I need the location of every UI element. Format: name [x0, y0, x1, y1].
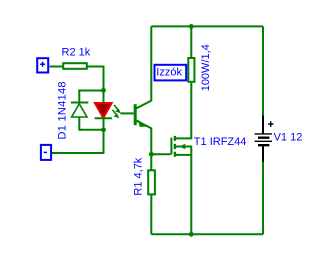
- light arrow 2: [113, 110, 120, 118]
- node A junction dot: [101, 88, 106, 93]
- node B junction dot: [149, 152, 154, 157]
- wire node A down to LED: [103, 90, 105, 103]
- transistor T1 body lead with arrow: [176, 147, 191, 235]
- phototransistor emitter: [136, 120, 152, 154]
- resistor R1: [148, 170, 155, 194]
- wire lamp to T1 drain: [176, 83, 191, 139]
- diode D1: [71, 103, 88, 118]
- terminal + (plus box): [37, 58, 48, 72]
- top rail: [151, 25, 263, 27]
- battery top wire green: [262, 26, 264, 115]
- wire node A to D1 top: [79, 91, 103, 102]
- svg-text:D1 1N4148: D1 1N4148: [56, 81, 68, 139]
- transistor T1 channel segments: [174, 136, 176, 157]
- svg-text:100W/1,4: 100W/1,4: [200, 44, 212, 91]
- svg-text:Izzók: Izzók: [156, 67, 182, 79]
- light arrow 1: [114, 105, 121, 113]
- resistor R1 bottom wire: [150, 194, 152, 234]
- LED of optocoupler (red): [95, 103, 112, 118]
- resistor R1 top wire: [150, 154, 152, 170]
- wire D1 bottom to node C: [79, 117, 103, 130]
- bottom rail: [151, 233, 263, 235]
- phototransistor base bar: [134, 104, 137, 125]
- gate wire node B to T1: [151, 153, 170, 155]
- transistor T1 gate bar: [170, 138, 172, 155]
- phototransistor base lead: [121, 112, 134, 114]
- wire R2 to node A: [87, 67, 104, 91]
- svg-text:V1 12: V1 12: [274, 131, 303, 143]
- phototransistor collector: [136, 26, 152, 108]
- resistor R2: [63, 63, 87, 69]
- top node junction dot: [189, 24, 194, 29]
- terminal - (minus box): [41, 145, 51, 160]
- lamp Izzok body: [188, 58, 194, 82]
- LED cathode bar: [95, 117, 112, 119]
- wire plus box to R2: [50, 66, 64, 68]
- wire LED to node C: [103, 118, 105, 130]
- svg-text:R1 4,7k: R1 4,7k: [132, 157, 144, 195]
- wire node C to minus terminal: [52, 130, 104, 153]
- battery bottom wire green: [262, 162, 264, 234]
- bottom node junction dot: [189, 232, 194, 237]
- svg-text:R2 1k: R2 1k: [62, 47, 91, 59]
- battery V1: [255, 115, 274, 162]
- label box Izzok: [155, 65, 187, 81]
- svg-text:T1 IRFZ44: T1 IRFZ44: [194, 136, 247, 148]
- node C junction dot: [101, 127, 106, 132]
- emitter arrowhead: [138, 120, 146, 127]
- wire top node to lamp: [190, 26, 192, 58]
- transistor T1 source lead: [176, 154, 191, 156]
